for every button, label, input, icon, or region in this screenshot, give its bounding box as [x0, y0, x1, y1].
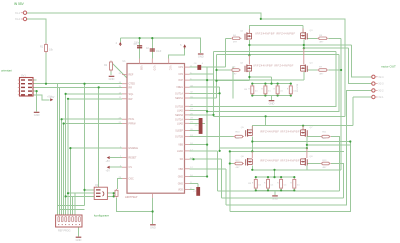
svg-text:motor OUT: motor OUT [381, 64, 396, 68]
svg-text:4R7: 4R7 [319, 42, 324, 44]
svg-text:R2: R2 [104, 65, 108, 67]
svg-text:SENS2: SENS2 [175, 114, 184, 117]
svg-text:OUT1B: OUT1B [175, 105, 183, 108]
svg-text:0.5: 0.5 [280, 91, 283, 93]
svg-text:VREG: VREG [176, 86, 183, 89]
svg-text:Q4: Q4 [310, 63, 314, 65]
svg-text:GND: GND [34, 113, 40, 117]
svg-text:IRFZ44NPBF IRFZ44NPBF: IRFZ44NPBF IRFZ44NPBF [255, 31, 295, 35]
svg-text:CS: CS [129, 166, 133, 169]
svg-text:R: R [261, 89, 263, 91]
svg-text:4R7: 4R7 [322, 138, 327, 140]
svg-text:Q3: Q3 [310, 30, 314, 32]
svg-text:0.5: 0.5 [297, 185, 300, 187]
svg-text:R8: R8 [244, 89, 248, 91]
svg-text:Q8: Q8 [310, 156, 314, 158]
svg-text:+5V: +5V [47, 95, 52, 98]
svg-text:4R7: 4R7 [236, 167, 241, 169]
svg-text:SR: SR [180, 158, 184, 161]
svg-text:VBB: VBB [140, 66, 142, 71]
svg-text:GND: GND [269, 101, 275, 105]
svg-text:VBB: VBB [178, 144, 183, 147]
svg-text:X2-3: X2-3 [378, 83, 384, 86]
svg-text:R: R [290, 183, 292, 185]
svg-text:SQL: SQL [129, 93, 134, 96]
svg-text:IRFZ44NPBF IRFZ44NPBF: IRFZ44NPBF IRFZ44NPBF [254, 64, 294, 68]
svg-text:4R7: 4R7 [319, 73, 324, 75]
svg-text:IRFZ44NPBF IRFZ44NPBF: IRFZ44NPBF IRFZ44NPBF [260, 130, 300, 134]
svg-text:0.5: 0.5 [284, 185, 287, 187]
svg-text:GND: GND [76, 238, 82, 242]
svg-text:PF3L: PF3L [129, 118, 135, 121]
svg-text:OUT2A: OUT2A [175, 118, 183, 121]
svg-text:100n: 100n [134, 42, 140, 44]
svg-text:X2-1: X2-1 [378, 96, 384, 99]
svg-text:R: R [277, 183, 279, 185]
svg-text:X1-2: X1-2 [15, 18, 21, 21]
svg-text:VBB: VBB [178, 168, 183, 171]
svg-text:X2-4: X2-4 [378, 76, 384, 79]
svg-text:L0AD: L0AD [177, 122, 183, 125]
svg-text:Q1: Q1 [240, 31, 244, 33]
svg-text:SLEEP: SLEEP [175, 129, 183, 132]
svg-text:U1: U1 [123, 60, 127, 63]
svg-text:10uF: 10uF [156, 51, 162, 53]
svg-text:OSC: OSC [129, 178, 134, 181]
svg-text:4: 4 [202, 63, 204, 65]
svg-text:VDD: VDD [178, 189, 183, 192]
svg-text:R: R [287, 89, 289, 91]
svg-text:4R7: 4R7 [233, 42, 238, 44]
svg-text:4R7: 4R7 [322, 167, 327, 169]
svg-text:CP1: CP1 [178, 66, 183, 69]
svg-text:0.5: 0.5 [258, 185, 261, 187]
svg-text:CTED: CTED [129, 83, 136, 86]
svg-text:ACS712: ACS712 [296, 84, 299, 93]
svg-text:10k: 10k [49, 49, 54, 52]
svg-text:RESET: RESET [129, 157, 138, 160]
svg-text:SV1: SV1 [21, 75, 26, 78]
svg-text:CP2: CP2 [178, 73, 183, 76]
svg-text:orientari: orientari [1, 69, 12, 73]
svg-text:GND: GND [178, 182, 184, 185]
svg-text:SENS1: SENS1 [175, 97, 184, 100]
svg-text:R: R [252, 183, 254, 185]
svg-text:GND: GND [272, 197, 278, 201]
svg-text:GND: GND [150, 225, 156, 229]
svg-text:R: R [264, 183, 266, 185]
svg-text:GND: GND [198, 55, 204, 59]
svg-text:GND: GND [109, 77, 115, 81]
svg-text:PFRW: PFRW [129, 123, 137, 126]
svg-text:0.5: 0.5 [271, 185, 274, 187]
svg-text:C7: C7 [193, 191, 197, 193]
svg-text:VDD: VDD [152, 66, 154, 71]
svg-text:X2-2: X2-2 [378, 90, 384, 93]
svg-text:Q5: Q5 [241, 127, 245, 129]
svg-text:4R7: 4R7 [233, 73, 238, 75]
svg-text:L0AD: L0AD [177, 109, 183, 112]
svg-text:IN 55V: IN 55V [14, 2, 25, 6]
svg-text:RR: RR [129, 86, 133, 89]
svg-text:L0AD: L0AD [177, 150, 183, 153]
svg-text:VCC: VCC [169, 66, 171, 71]
svg-text:C6: C6 [194, 63, 198, 65]
svg-text:REF: REF [129, 73, 134, 76]
svg-text:0.5: 0.5 [255, 91, 258, 93]
svg-text:IRFZ44NPBF IRFZ44NPBF: IRFZ44NPBF IRFZ44NPBF [260, 158, 300, 162]
svg-text:R1: R1 [40, 46, 44, 49]
svg-text:0.5: 0.5 [268, 91, 271, 93]
svg-text:4R7: 4R7 [236, 138, 241, 140]
svg-text:+5V: +5V [106, 169, 111, 172]
svg-text:R11: R11 [322, 132, 327, 134]
svg-text:OUT1A: OUT1A [175, 92, 183, 95]
svg-text:ENABLE: ENABLE [129, 147, 139, 150]
svg-text:C5: C5 [195, 125, 199, 127]
svg-text:R: R [248, 89, 250, 91]
svg-text:Q7: Q7 [310, 127, 314, 129]
svg-text:REF PROG: REF PROG [58, 229, 71, 232]
svg-text:X1-1: X1-1 [15, 12, 21, 15]
svg-text:GND: GND [178, 176, 184, 179]
svg-text:C2: C2 [146, 48, 150, 50]
svg-text:5: 5 [180, 44, 182, 47]
svg-text:2: 2 [116, 42, 118, 45]
svg-text:R10: R10 [236, 132, 241, 134]
svg-text:+5V: +5V [106, 160, 111, 163]
svg-text:Q6: Q6 [241, 156, 245, 158]
svg-text:OUT2B: OUT2B [175, 136, 183, 139]
svg-text:R: R [274, 89, 276, 91]
svg-text:konfigurare: konfigurare [94, 214, 109, 218]
svg-text:A3977SLP: A3977SLP [125, 195, 138, 199]
svg-text:VCP: VCP [178, 79, 183, 82]
svg-text:Q2: Q2 [240, 63, 244, 65]
